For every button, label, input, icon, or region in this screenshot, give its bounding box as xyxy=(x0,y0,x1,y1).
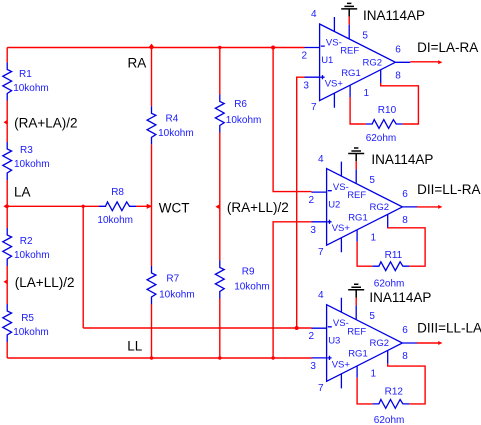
svg-text:8: 8 xyxy=(402,215,408,226)
node WCT anchor xyxy=(147,204,153,209)
wire bottom LL rail to U3 pin 3 xyxy=(7,357,311,359)
svg-text:4: 4 xyxy=(318,290,324,301)
svg-text:1: 1 xyxy=(364,88,370,99)
svg-text:RG2: RG2 xyxy=(363,57,383,68)
resistor R5 xyxy=(3,304,12,342)
svg-text:DII=LL-RA: DII=LL-RA xyxy=(417,182,480,197)
svg-text:3: 3 xyxy=(303,80,309,91)
wire left rail segment R5 to bottom xyxy=(6,342,8,358)
ground at U2 REF xyxy=(348,148,364,161)
svg-text:4: 4 xyxy=(318,154,324,165)
resistor R4 xyxy=(147,106,156,144)
ground at U3 REF xyxy=(348,284,364,297)
wire RA branch down to U2 pin 2 xyxy=(273,48,311,192)
svg-text:RA: RA xyxy=(128,56,147,71)
svg-text:5: 5 xyxy=(369,175,375,186)
wire U2 pin 1 to R11 xyxy=(357,242,372,267)
wire ground to U3 pin 5 xyxy=(355,298,357,306)
svg-text:2: 2 xyxy=(309,331,315,342)
wire U1 pin 1 to R10 xyxy=(350,97,366,124)
resistor R6 xyxy=(215,95,224,133)
junction LL rail at WCT column xyxy=(150,356,153,359)
svg-text:VS+: VS+ xyxy=(332,359,351,370)
svg-text:10kohm: 10kohm xyxy=(13,83,49,94)
svg-text:(LA+LL)/2: (LA+LL)/2 xyxy=(15,275,75,290)
svg-text:3: 3 xyxy=(310,361,316,372)
svg-text:R9: R9 xyxy=(242,267,255,278)
resistor R2 xyxy=(3,228,12,266)
wire R12 to U3 pin 8 xyxy=(388,364,425,404)
junction top rail at R6 column xyxy=(218,46,221,49)
wire left rail segment R1 to R3 xyxy=(6,101,8,143)
svg-text:62ohm: 62ohm xyxy=(374,279,405,290)
svg-text:10kohm: 10kohm xyxy=(226,115,262,126)
svg-text:RG2: RG2 xyxy=(370,202,390,213)
svg-text:LL: LL xyxy=(127,338,143,353)
svg-text:R4: R4 xyxy=(166,114,179,125)
svg-text:8: 8 xyxy=(395,70,401,81)
svg-text:R2: R2 xyxy=(20,236,33,247)
svg-text:62ohm: 62ohm xyxy=(366,133,397,144)
svg-text:8: 8 xyxy=(402,351,408,362)
svg-text:U2: U2 xyxy=(328,200,340,211)
wire U3 pin 1 to R12 xyxy=(357,378,372,404)
svg-text:R12: R12 xyxy=(385,387,404,398)
svg-text:REF: REF xyxy=(347,326,366,337)
wire top RA rail xyxy=(7,47,304,49)
svg-text:INA114AP: INA114AP xyxy=(371,152,433,167)
svg-text:REF: REF xyxy=(347,190,366,201)
junction LA low row at riser xyxy=(295,326,299,330)
svg-text:62ohm: 62ohm xyxy=(374,415,405,425)
resistor R9 xyxy=(215,261,224,299)
svg-text:R1: R1 xyxy=(19,69,32,80)
resistor R7 xyxy=(147,266,156,304)
svg-text:2: 2 xyxy=(302,50,308,61)
op-amp U3 xyxy=(312,298,418,389)
svg-text:5: 5 xyxy=(369,311,375,322)
svg-text:DIII=LL-LA: DIII=LL-LA xyxy=(417,320,481,335)
node RA anchor xyxy=(149,44,155,48)
node (LA+LL)/2 anchor xyxy=(4,279,8,284)
svg-text:INA114AP: INA114AP xyxy=(363,8,425,23)
wire WCT column R7 to LL xyxy=(151,304,153,358)
node (RA+LL)/2 anchor xyxy=(215,204,219,209)
svg-text:10kohm: 10kohm xyxy=(97,215,133,226)
svg-text:10kohm: 10kohm xyxy=(13,327,49,338)
svg-text:7: 7 xyxy=(318,383,324,394)
svg-text:10kohm: 10kohm xyxy=(14,159,50,170)
wire LA branch down xyxy=(82,206,84,328)
svg-text:LA: LA xyxy=(14,184,31,199)
svg-text:RG1: RG1 xyxy=(341,68,361,79)
arrow DII output xyxy=(438,205,442,209)
wire R10 to U1 pin 8 xyxy=(381,83,419,124)
svg-text:(RA+LA)/2: (RA+LA)/2 xyxy=(14,116,77,131)
svg-text:6: 6 xyxy=(402,325,408,336)
svg-text:U1: U1 xyxy=(321,55,333,66)
junction top rail at RA branch xyxy=(271,46,275,50)
svg-text:1: 1 xyxy=(371,233,377,244)
svg-text:10kohm: 10kohm xyxy=(159,290,195,301)
wire R11 to U2 pin 8 xyxy=(388,228,425,267)
svg-text:5: 5 xyxy=(362,30,368,41)
junction LA row at branch xyxy=(82,205,85,208)
svg-text:VS+: VS+ xyxy=(325,79,344,90)
resistor R10 xyxy=(366,120,403,129)
svg-text:WCT: WCT xyxy=(159,201,190,216)
svg-text:REF: REF xyxy=(340,46,359,57)
wire LA low row to U3 pin 2 xyxy=(83,327,311,329)
resistor R12 xyxy=(372,400,409,409)
wire left rail segment R3 to R2 xyxy=(6,180,8,228)
svg-text:R3: R3 xyxy=(20,145,33,156)
svg-text:10kohm: 10kohm xyxy=(14,250,50,261)
svg-text:1: 1 xyxy=(371,369,377,380)
ground at U1 REF xyxy=(341,3,357,16)
junction LA row at left rail xyxy=(6,205,9,208)
svg-text:R8: R8 xyxy=(111,187,124,198)
wire U2 output DII xyxy=(417,206,440,208)
wire ground to U2 pin 5 xyxy=(355,161,357,169)
svg-text:VS+: VS+ xyxy=(332,223,351,234)
wire ground to U1 pin 5 xyxy=(348,17,350,25)
svg-text:RG1: RG1 xyxy=(348,213,368,224)
arrow DIII output xyxy=(438,341,442,345)
resistor R1 xyxy=(3,63,12,101)
node (RA+LA)/2 anchor xyxy=(4,120,8,125)
wire U1 output DI xyxy=(410,61,440,63)
wire LL branch up to U2 pin 3 xyxy=(273,222,311,358)
wire R6 column R6 to R9 xyxy=(219,133,221,261)
svg-text:7: 7 xyxy=(318,247,324,258)
svg-text:6: 6 xyxy=(402,189,408,200)
wire left rail segment above R1 xyxy=(6,48,8,63)
wire U3 output DIII xyxy=(417,342,440,344)
svg-text:RG2: RG2 xyxy=(370,338,390,349)
svg-text:R11: R11 xyxy=(385,250,403,261)
arrow DI output xyxy=(438,60,442,64)
wire LA row right of R8 xyxy=(136,205,151,207)
svg-text:RG1: RG1 xyxy=(348,349,368,360)
op-amp U2 xyxy=(312,162,418,253)
svg-text:3: 3 xyxy=(310,225,316,236)
wire R9 column to LL xyxy=(219,299,221,359)
svg-text:(RA+LL)/2: (RA+LL)/2 xyxy=(227,200,289,215)
svg-text:R7: R7 xyxy=(166,274,179,285)
node LA anchor xyxy=(3,204,7,209)
svg-text:10kohm: 10kohm xyxy=(158,128,194,139)
junction top rail at WCT column xyxy=(150,46,153,49)
svg-text:7: 7 xyxy=(311,102,317,113)
wire LA riser to U1 pin 3 xyxy=(297,77,305,328)
svg-text:10kohm: 10kohm xyxy=(234,282,270,293)
svg-text:INA114AP: INA114AP xyxy=(369,290,431,305)
wire WCT column R4 to R7 xyxy=(151,144,153,266)
svg-text:U3: U3 xyxy=(328,336,340,347)
op-amp U1 xyxy=(305,17,411,108)
wire R6 column above R6 xyxy=(219,48,221,95)
svg-text:DI=LA-RA: DI=LA-RA xyxy=(417,40,478,55)
junction LL rail at R9 column xyxy=(218,356,221,359)
junction LL rail at LL branch xyxy=(271,356,274,359)
wire WCT column above R4 xyxy=(151,48,153,107)
svg-text:R6: R6 xyxy=(234,99,247,110)
resistor R3 xyxy=(3,142,12,180)
svg-text:4: 4 xyxy=(311,9,317,20)
resistor R8 xyxy=(99,202,136,211)
svg-text:R10: R10 xyxy=(378,105,397,116)
svg-text:2: 2 xyxy=(309,195,315,206)
wire left rail segment R2 to R5 xyxy=(6,266,8,304)
wire LA row left xyxy=(7,205,99,207)
svg-text:R5: R5 xyxy=(21,313,34,324)
resistor R11 xyxy=(372,262,409,271)
svg-text:6: 6 xyxy=(395,45,401,56)
